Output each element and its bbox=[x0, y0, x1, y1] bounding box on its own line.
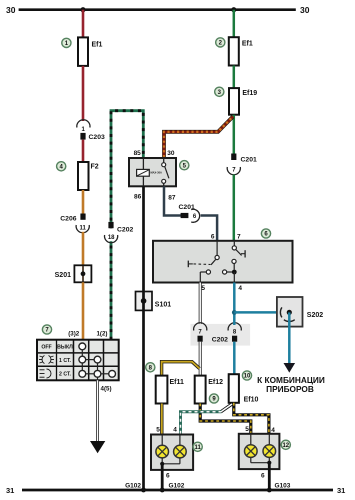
wire: yellow branch to fuse Ef11 bbox=[162, 362, 200, 376]
wire: dark-slate from C201 pin 6 into block pin 6 bbox=[201, 216, 218, 242]
node: G102 junction on bus 31 bbox=[141, 488, 146, 493]
bus 30 bbox=[6, 5, 310, 15]
svg-text:86: 86 bbox=[134, 194, 142, 201]
lamp EL (left unit, inner) bbox=[156, 435, 186, 466]
wire: green from C201 to block pin 7 bbox=[233, 175, 236, 242]
svg-text:6: 6 bbox=[166, 473, 170, 480]
switch contacts bbox=[79, 343, 116, 380]
callout 11 bbox=[193, 442, 202, 451]
wire: yellow from Ef11 to left fog lamp pin 5 bbox=[160, 404, 163, 435]
splice S202 bbox=[277, 297, 323, 327]
fuse Ef19 bbox=[229, 88, 257, 115]
node: lamp ground junction on bus 31 bbox=[160, 488, 165, 493]
block interior contacts bbox=[188, 241, 245, 283]
switch pin headers bbox=[68, 330, 107, 337]
connector C201 pin 6 bbox=[179, 204, 200, 222]
fuse Ef10 (callout 10) bbox=[229, 371, 259, 404]
svg-text:S202: S202 bbox=[307, 312, 323, 319]
svg-text:4(5): 4(5) bbox=[101, 385, 112, 392]
wire: dark-red from C203 to fuse F2 bbox=[82, 140, 85, 163]
fuse Ef11 (callout 8) bbox=[146, 363, 184, 404]
svg-text:5: 5 bbox=[156, 427, 160, 434]
svg-text:MAX-30A: MAX-30A bbox=[151, 171, 163, 175]
callout 2 bbox=[216, 38, 225, 47]
wire: blue from C202 pin 8 to fuse Ef10 bbox=[233, 342, 236, 375]
relay coil bbox=[137, 158, 162, 186]
callout 4 bbox=[57, 162, 66, 171]
splice S101 bbox=[136, 292, 172, 311]
wire: dark-slate from relay pin 87 to connector C201 pin 6 and block pin 6 bbox=[164, 186, 181, 215]
svg-text:2 СТ.: 2 СТ. bbox=[59, 371, 72, 377]
svg-text:ВЫКЛ: ВЫКЛ bbox=[57, 345, 73, 351]
svg-text:C201: C201 bbox=[241, 156, 257, 163]
svg-text:Ef1: Ef1 bbox=[242, 41, 253, 48]
fuse Ef12 (callout 9) bbox=[195, 376, 223, 404]
svg-text:Ef19: Ef19 bbox=[242, 90, 257, 97]
node: junction of Ef1 feed on bus 30 (right) bbox=[231, 7, 236, 12]
svg-text:4: 4 bbox=[271, 427, 275, 434]
svg-text:ПРИБОРОВ: ПРИБОРОВ bbox=[266, 384, 314, 394]
svg-text:G102: G102 bbox=[169, 482, 185, 489]
callout 1 bbox=[62, 38, 71, 47]
icon: front fog lamps (row 2) bbox=[39, 356, 54, 364]
wire: blue from junction to splice S202 bbox=[234, 311, 288, 314]
connector C202 (pins 7 and 8) bbox=[191, 323, 251, 346]
svg-text:11: 11 bbox=[80, 225, 87, 231]
wire: green from bus 30 to fuse Ef1 (right) bbox=[233, 10, 236, 38]
svg-text:Ef11: Ef11 bbox=[170, 379, 185, 386]
wire: black ground from left fog lamp pin 6 to G102 bbox=[161, 464, 164, 490]
wire: green from Ef1 to fuse Ef19 bbox=[233, 66, 236, 89]
relay contact bbox=[162, 158, 169, 186]
svg-text:30: 30 bbox=[167, 150, 175, 157]
wire: white from C202 pin 7 to fuse Ef12 bbox=[199, 342, 202, 376]
wire: orange from S201 to fog-lamp switch bbox=[82, 282, 85, 343]
fog-lamp relay block (callout 6) bbox=[153, 234, 293, 292]
fuse F2 bbox=[78, 162, 99, 190]
svg-text:30: 30 bbox=[6, 5, 16, 15]
relay K (callout 5) bbox=[129, 150, 176, 202]
svg-text:30: 30 bbox=[300, 5, 310, 15]
svg-text:18: 18 bbox=[108, 235, 115, 241]
svg-text:F2: F2 bbox=[91, 164, 99, 171]
text: to instrument cluster bbox=[257, 375, 325, 394]
svg-text:31: 31 bbox=[6, 486, 14, 495]
svg-text:10: 10 bbox=[244, 374, 251, 380]
svg-text:G102: G102 bbox=[125, 482, 141, 489]
wire: orange from F2 to connector C206 bbox=[82, 190, 85, 214]
svg-text:5: 5 bbox=[245, 426, 249, 433]
svg-text:S101: S101 bbox=[155, 301, 171, 308]
svg-text:6: 6 bbox=[261, 473, 265, 480]
svg-text:12: 12 bbox=[282, 443, 289, 449]
callout 6 bbox=[261, 229, 270, 238]
svg-text:Ef10: Ef10 bbox=[244, 397, 259, 404]
node: junction of Ef1 feed on bus 30 (left) bbox=[80, 7, 85, 12]
wire: dark-red from Ef1 to connector C203 bbox=[82, 66, 85, 121]
bus 31 bbox=[6, 486, 345, 495]
connector C203 pin 1 bbox=[77, 120, 105, 141]
node: blue wire junction to S202 bbox=[232, 310, 237, 315]
wire: dark-red from bus 30 to fuse Ef1 (left) bbox=[82, 10, 85, 38]
svg-text:Ef12: Ef12 bbox=[208, 379, 223, 386]
svg-text:31: 31 bbox=[337, 486, 345, 495]
wire: black/yellow from Ef12 to right fog lamp pin 5 bbox=[200, 404, 251, 435]
svg-text:1 СТ.: 1 СТ. bbox=[59, 358, 72, 364]
svg-text:7: 7 bbox=[237, 234, 241, 241]
svg-text:C203: C203 bbox=[89, 134, 105, 141]
callout 5 bbox=[180, 161, 189, 170]
svg-text:4: 4 bbox=[238, 285, 242, 292]
svg-text:G103: G103 bbox=[275, 482, 291, 489]
wire: green/white from Ef10 to left fog lamp pin 4 bbox=[181, 404, 233, 435]
fuse Ef1 (left) bbox=[78, 37, 103, 66]
wire: black from S101 to ground G102 bbox=[142, 310, 145, 490]
connector C201 pin 7 bbox=[227, 154, 257, 175]
fog-lamp switch (callout 7) bbox=[37, 340, 119, 381]
svg-text:85: 85 bbox=[134, 150, 142, 157]
wire: black ground from right fog lamp pin 6 to G103 bbox=[268, 463, 271, 490]
svg-text:C202: C202 bbox=[117, 227, 133, 234]
wire: orange/red striped from Ef19 output to relay pin 30 bbox=[164, 117, 233, 159]
right fog lamp unit (callout 12) bbox=[239, 426, 280, 469]
fuse Ef1 (right) bbox=[229, 37, 253, 65]
splice S201 bbox=[55, 265, 92, 282]
left fog lamp unit (callout 11) bbox=[151, 427, 193, 470]
svg-text:Ef1: Ef1 bbox=[92, 42, 103, 49]
callout 3 bbox=[215, 87, 224, 96]
svg-text:5: 5 bbox=[201, 285, 205, 292]
switch row labels bbox=[41, 345, 73, 378]
lamp EL (right unit, inner) bbox=[245, 434, 276, 465]
svg-text:(3)2: (3)2 bbox=[68, 330, 80, 337]
svg-text:6: 6 bbox=[211, 234, 215, 241]
svg-text:C202: C202 bbox=[212, 336, 228, 343]
wire: blue from block pin 4 to junction bbox=[233, 283, 236, 326]
callout 12 bbox=[281, 440, 290, 449]
arrow: to instrument cluster bbox=[284, 363, 296, 373]
wire: white from block pin 5 to connector C202 pin 7 bbox=[199, 283, 202, 326]
svg-text:S201: S201 bbox=[55, 272, 71, 279]
wire: blue from S202 down to instrument cluster arrow bbox=[288, 312, 291, 363]
wire: orange from C206 to splice S201 bbox=[82, 232, 85, 265]
svg-text:87: 87 bbox=[168, 195, 176, 202]
connector C206 pin 11 bbox=[60, 214, 89, 233]
svg-text:C206: C206 bbox=[60, 215, 76, 222]
svg-text:1(2): 1(2) bbox=[96, 330, 107, 337]
wire: green from Ef19 to connector C201 pin 7 bbox=[233, 115, 236, 154]
wire: green/black striped from fog-lamp switch block to relay pin 85 via C202 pin 18 bbox=[111, 111, 143, 340]
arrow: switch output continuation bbox=[90, 441, 105, 453]
wire: black/yellow from Ef10 to right fog lamp pin 4 bbox=[234, 403, 269, 434]
node: G103 junction on bus 31 bbox=[267, 488, 272, 493]
icon: rear fog lamp (row 3) bbox=[40, 369, 52, 378]
wire: white from switch pin 4 to arrow bbox=[96, 380, 99, 441]
svg-text:11: 11 bbox=[195, 445, 202, 451]
svg-text:OFF: OFF bbox=[41, 345, 51, 351]
wire: black from relay pin 86 to splice S101 bbox=[142, 186, 145, 291]
svg-text:4: 4 bbox=[173, 427, 177, 434]
callout 7 bbox=[42, 325, 51, 334]
connector C202 pin 18 bbox=[105, 222, 134, 243]
